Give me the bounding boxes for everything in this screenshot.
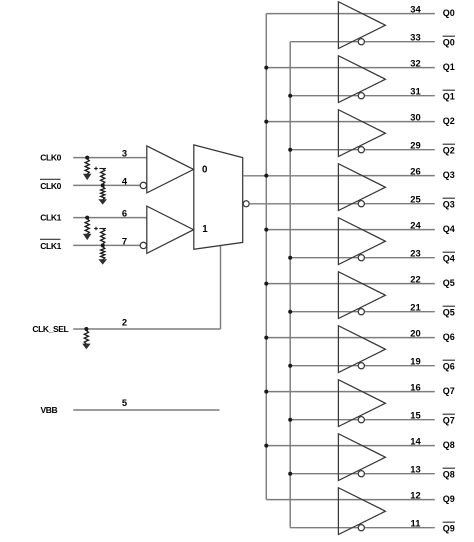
svg-text:Q3: Q3: [443, 200, 455, 210]
svg-text:Q2: Q2: [443, 116, 455, 126]
svg-text:11: 11: [411, 518, 421, 529]
svg-text:Q9: Q9: [443, 494, 455, 504]
svg-text:34: 34: [410, 3, 421, 14]
svg-text:19: 19: [410, 356, 420, 367]
svg-text:Q8: Q8: [443, 440, 455, 450]
svg-text:Q3: Q3: [443, 170, 455, 180]
svg-text:CLK1: CLK1: [40, 213, 61, 223]
svg-text:3: 3: [122, 148, 127, 159]
svg-text:7: 7: [122, 235, 127, 246]
svg-text:Q7: Q7: [443, 416, 455, 426]
svg-text:Q8: Q8: [443, 470, 455, 480]
svg-text:5: 5: [122, 397, 127, 408]
svg-text:16: 16: [410, 381, 420, 392]
svg-text:Q5: Q5: [443, 308, 455, 318]
svg-text:24: 24: [410, 219, 421, 230]
svg-text:20: 20: [410, 327, 420, 338]
svg-text:1: 1: [202, 224, 208, 235]
svg-text:21: 21: [410, 302, 420, 313]
svg-text:0: 0: [202, 164, 207, 175]
svg-text:Q9: Q9: [443, 524, 455, 534]
svg-text:Q0: Q0: [443, 38, 455, 48]
svg-text:Q2: Q2: [443, 146, 455, 156]
svg-text:CLK0: CLK0: [40, 181, 61, 191]
svg-text:25: 25: [410, 194, 420, 205]
svg-text:4: 4: [122, 175, 128, 186]
svg-text:Q4: Q4: [443, 254, 455, 264]
svg-text:2: 2: [122, 317, 127, 328]
svg-text:Q1: Q1: [443, 62, 455, 72]
svg-text:13: 13: [410, 464, 420, 475]
svg-text:CLK_SEL: CLK_SEL: [32, 324, 68, 334]
svg-text:26: 26: [410, 165, 420, 176]
svg-text:22: 22: [410, 273, 420, 284]
svg-text:Q1: Q1: [443, 92, 455, 102]
svg-text:23: 23: [410, 248, 420, 259]
svg-text:Q6: Q6: [443, 332, 455, 342]
svg-text:15: 15: [410, 410, 420, 421]
svg-text:Q6: Q6: [443, 362, 455, 372]
svg-text:12: 12: [410, 489, 420, 500]
svg-text:CLK0: CLK0: [40, 153, 61, 163]
svg-text:33: 33: [410, 32, 420, 43]
svg-text:Q7: Q7: [443, 386, 455, 396]
svg-text:29: 29: [410, 140, 420, 151]
svg-text:VBB: VBB: [41, 405, 58, 415]
svg-text:6: 6: [122, 208, 127, 219]
svg-text:Q4: Q4: [443, 224, 455, 234]
svg-text:14: 14: [410, 435, 421, 446]
svg-text:32: 32: [410, 57, 420, 68]
svg-text:Q5: Q5: [443, 278, 455, 288]
svg-text:Q0: Q0: [443, 8, 455, 18]
svg-text:CLK1: CLK1: [40, 241, 61, 251]
svg-text:30: 30: [410, 111, 420, 122]
svg-text:31: 31: [410, 86, 420, 97]
